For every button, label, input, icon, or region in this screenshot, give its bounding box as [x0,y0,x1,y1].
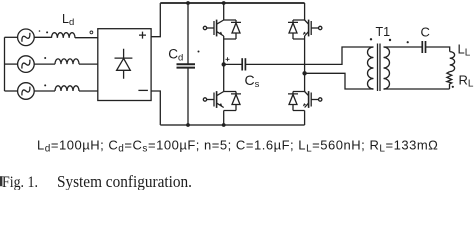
node top rail left leg [222,1,226,5]
wire right leg middle [304,36,306,92]
svg-text:C: C [421,25,430,40]
plus sign rectifier output [139,32,146,39]
wire right leg upper [304,3,306,20]
wire rectifier plus stub [151,3,160,37]
plus mark Cs polarity [226,57,230,61]
scan artifact block [0,176,2,186]
svg-text:T1: T1 [376,25,391,39]
phase dot secondary [389,39,391,41]
phase dot primary [370,38,372,40]
wire top dc rail [160,2,304,4]
wire phase b to inductor [34,63,55,65]
wire stub phase a [5,36,18,38]
wire stub phase c [5,90,18,92]
wire left leg middle [223,36,225,92]
node left leg midpoint [222,62,226,66]
rectifier box [98,29,151,101]
wire right midpoint to transformer (wire B) [305,73,374,89]
marker dot phase a left [46,31,48,33]
igbt Q4 with body diode [288,91,322,110]
inductor Ld phase c [55,86,79,91]
wire phase c to inductor [34,90,55,92]
igbt Q3 with body diode [203,91,241,110]
marker dot phase c [44,84,46,86]
wire secondary top to capacitor C [384,46,423,48]
wire inductor to rectifier phase a [75,37,98,39]
wire rectifier minus stub [151,91,160,125]
node bottom rail Cd [186,123,190,127]
svg-text:Cs: Cs [245,72,260,90]
transformer T1 secondary winding [384,47,390,89]
minus sign rectifier output [138,89,148,91]
node top rail Cd [186,1,190,5]
wire left leg upper [223,3,225,20]
wire left leg lower [223,111,225,126]
ac source Vc [18,83,35,100]
wire RL to bottom [449,84,451,89]
resistor RL [447,72,452,84]
wire bottom dc rail [160,124,304,126]
wire capacitor C to load corner [426,47,450,52]
wire secondary bottom return [384,88,450,90]
node bottom rail left leg [222,123,226,127]
marker dot phase b [44,57,46,59]
wire midpoint to Cs [224,63,243,65]
capacitor C [422,41,425,53]
marker ring phase a right [90,31,93,34]
inductor Ld phase a [52,33,76,38]
capacitor Cs [242,58,245,70]
node right leg midpoint [302,71,306,75]
wire neutral bus [4,37,6,91]
igbt Q2 with body diode [288,20,322,39]
diode inside rectifier [115,49,133,79]
svg-text:Fig. 1.: Fig. 1. [2,174,38,190]
inductor Ld phase b [55,59,79,64]
svg-text:Cd: Cd [168,47,183,64]
wire stub phase b [5,63,18,65]
ac source Va [18,29,35,46]
wire inductor to rectifier phase b [79,63,98,65]
polarity dot load [452,86,454,88]
svg-text:Ld=100µH; Cd=Cs=100µF; n=5; C=: Ld=100µH; Cd=Cs=100µF; n=5; C=1.6µF; LL=… [37,138,438,155]
igbt Q1 with body diode [203,20,241,39]
marker dot right of Cd [198,51,200,53]
marker dot phase a circle right [39,30,41,32]
svg-text:LL: LL [458,42,471,59]
svg-text:RL: RL [459,73,474,90]
transformer T1 primary winding [368,47,374,89]
wire Cs to transformer (wire A) [245,47,373,64]
ac source Vb [18,56,35,73]
wire right leg lower [304,111,306,126]
inductor LL [450,52,455,72]
svg-text:System configuration.: System configuration. [57,173,192,190]
capacitor Cd [177,3,196,125]
svg-text:Ld: Ld [62,12,74,28]
wire inductor to rectifier phase c [79,90,98,92]
wire phase a to inductor [34,36,51,38]
polarity dot secondary wire [407,41,409,43]
transformer T1 core [378,44,381,92]
